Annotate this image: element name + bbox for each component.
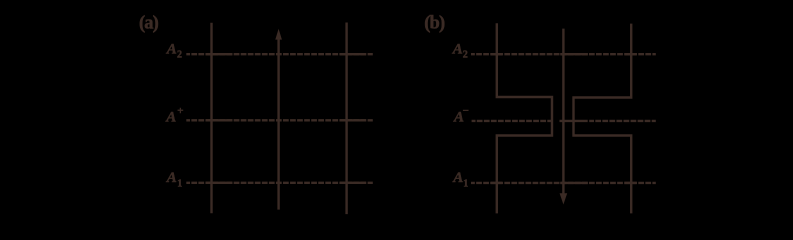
arrowhead up (panel a) (275, 29, 282, 40)
dashed row A1 (panel a) (186, 182, 372, 184)
wire: left line with rightward detour (panel b) (497, 23, 552, 213)
wire: right vertical (panel a) (345, 23, 347, 215)
solid patch at middle wire, row A1 (panel b) (560, 182, 588, 184)
solid patch at right wire, row A2 (panel a) (340, 53, 366, 55)
dashed row A- right part (panel b) (589, 120, 656, 122)
dashed row A2 (panel a) (186, 53, 372, 55)
svg-text:(a): (a) (139, 14, 159, 34)
elongated dash at right wire, row A2 (panel b) (625, 53, 637, 55)
svg-text:2: 2 (463, 49, 468, 60)
solid patch at middle wire, row A2 (panel b) (560, 53, 588, 55)
svg-text:A: A (166, 41, 177, 57)
wire: right line with leftward detour (panel b) (574, 24, 632, 214)
dashed row A- left part (panel b) (472, 120, 553, 122)
dashed row A2 (panel b) (471, 53, 656, 55)
svg-text:2: 2 (177, 49, 182, 60)
solid patch at left wire, row A+ (panel a) (206, 119, 233, 121)
svg-text:1: 1 (177, 179, 182, 190)
elongated dash at right wire, row A1 (panel b) (625, 182, 637, 184)
svg-text:A: A (165, 110, 176, 126)
svg-text:+: + (177, 105, 183, 117)
dashed row A1 (panel b) (471, 182, 656, 184)
svg-text:A: A (452, 170, 463, 186)
dashed row A+ (panel a) (186, 119, 372, 121)
svg-text:1: 1 (463, 179, 468, 190)
elongated dash at left wire, row A1 (panel b) (491, 182, 502, 184)
solid patch at middle, row A- (panel b) (560, 120, 588, 122)
solid patch at right wire, row A+ (panel a) (340, 119, 366, 121)
arrowhead down (panel b) (560, 193, 568, 204)
wire: left vertical (panel a) (210, 23, 212, 214)
solid patch at left wire, row A1 (panel a) (206, 182, 233, 184)
wire: middle vertical with down arrow (panel b) (562, 29, 564, 195)
wire: middle vertical with up arrow (panel a) (277, 37, 279, 210)
svg-text:A: A (166, 170, 177, 186)
svg-text:−: − (463, 105, 469, 117)
svg-text:(b): (b) (424, 14, 445, 34)
elongated dash at left wire, row A2 (panel b) (491, 53, 502, 55)
svg-text:A: A (452, 41, 463, 57)
solid patch at right wire, row A1 (panel a) (340, 182, 366, 184)
solid patch at left wire, row A2 (panel a) (206, 53, 233, 55)
